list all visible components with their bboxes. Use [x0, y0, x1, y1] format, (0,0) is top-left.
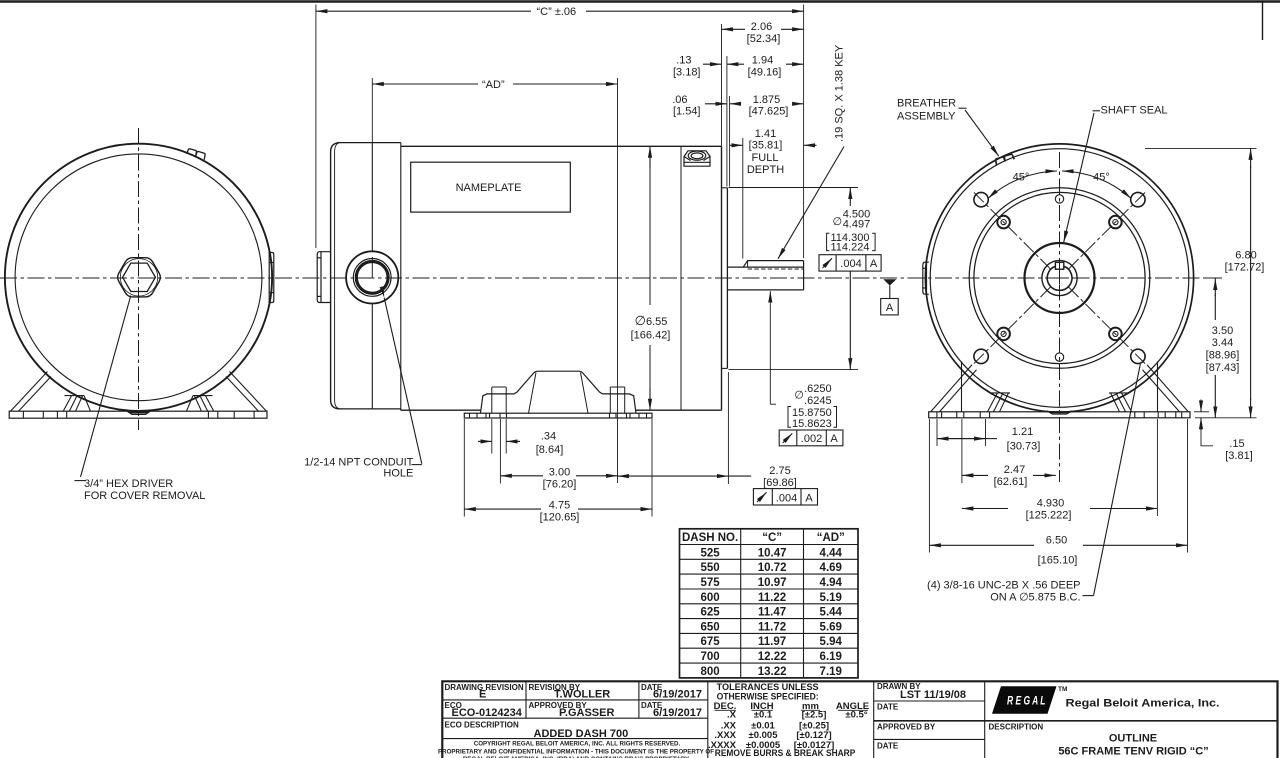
- svg-text:∅: ∅: [833, 216, 843, 228]
- feature control frame .004 A: [819, 255, 881, 271]
- front view: motor front outline: [5, 144, 272, 411]
- svg-text:11.97: 11.97: [758, 636, 786, 648]
- svg-text:SHAFT SEAL: SHAFT SEAL: [1101, 105, 1168, 117]
- svg-text:(4) 3/8-16 UNC-2B X .56 DEEP: (4) 3/8-16 UNC-2B X .56 DEEP: [927, 580, 1080, 592]
- rear view vertical centerline: [1059, 152, 1061, 482]
- side view body end / C-face: [721, 146, 723, 410]
- dimension 1.21 [30.73]: [936, 419, 938, 446]
- rear view through-bolt holes: [997, 216, 1010, 229]
- svg-text:[35.81]: [35.81]: [749, 140, 783, 152]
- svg-text:5.19: 5.19: [820, 592, 842, 604]
- rear view C-face pilot circle: [974, 192, 1145, 363]
- side view cap top/bottom edges: [338, 142, 401, 144]
- svg-text:6.50: 6.50: [1046, 534, 1067, 546]
- front view right foot: [187, 372, 267, 412]
- svg-text:12.22: 12.22: [758, 651, 787, 663]
- svg-text:45°: 45°: [1093, 172, 1110, 184]
- rear view bottom center pad: [1047, 411, 1072, 414]
- svg-text:[166.42]: [166.42]: [631, 330, 671, 342]
- side view 1/2-14 NPT conduit hole: [346, 251, 398, 303]
- svg-text:E: E: [479, 689, 486, 701]
- svg-text:FOR COVER REMOVAL: FOR COVER REMOVAL: [84, 490, 205, 502]
- horizontal centerline through all views: [0, 277, 1205, 279]
- dimension dia 6.55 [166.42]: [649, 166, 651, 305]
- side view nameplate: [411, 162, 571, 212]
- svg-text:45°: 45°: [1013, 172, 1030, 184]
- svg-text:.6245: .6245: [804, 395, 832, 407]
- svg-text:3/4” HEX DRIVER: 3/4” HEX DRIVER: [84, 478, 173, 490]
- rear view 3/8-16 tapped holes: [974, 192, 988, 206]
- dimension 4.930 [125.222]: [1156, 419, 1158, 516]
- svg-text:A: A: [830, 433, 838, 445]
- datum A flag: [883, 279, 896, 285]
- svg-text:[125.222]: [125.222]: [1026, 509, 1072, 521]
- svg-text:DASH NO.: DASH NO.: [682, 532, 738, 544]
- svg-text:10.47: 10.47: [758, 547, 787, 559]
- rear view base plate: [929, 412, 1190, 418]
- svg-text:3.00: 3.00: [549, 466, 570, 478]
- svg-text:1.94: 1.94: [752, 55, 773, 67]
- svg-text:650: 650: [701, 621, 720, 633]
- dimension 6.80 [172.72]: [1145, 147, 1257, 149]
- leader: shaft seal: [1093, 110, 1101, 112]
- svg-text:[52.34]: [52.34]: [747, 33, 781, 45]
- svg-text:1.21: 1.21: [1012, 426, 1033, 438]
- svg-text:A: A: [805, 492, 813, 504]
- svg-text:REMOVE BURRS & BREAK SHARP: REMOVE BURRS & BREAK SHARP: [715, 748, 856, 758]
- leader: 3/4 hex driver: [81, 296, 131, 478]
- front view base plate: [9, 411, 267, 418]
- front view left foot: [11, 372, 91, 412]
- svg-text:[62.61]: [62.61]: [994, 476, 1028, 488]
- svg-text:TM: TM: [1058, 686, 1067, 693]
- svg-text:5.44: 5.44: [820, 607, 843, 619]
- svg-text:3.44: 3.44: [1212, 337, 1233, 349]
- side view rear seam line: [680, 146, 682, 410]
- dash number table: [680, 529, 859, 678]
- svg-text:6/19/2017: 6/19/2017: [653, 707, 702, 719]
- svg-text:ADDED DASH 700: ADDED DASH 700: [534, 728, 629, 740]
- svg-text:ECO-0124234: ECO-0124234: [452, 707, 523, 719]
- svg-text:2.06: 2.06: [751, 21, 772, 33]
- svg-text:700: 700: [701, 651, 720, 663]
- rear view left foot: [931, 362, 1010, 412]
- svg-text:[3.81]: [3.81]: [1225, 450, 1253, 462]
- svg-text:550: 550: [701, 562, 720, 574]
- sheet top border: [0, 0, 1280, 3]
- svg-text:6.80: 6.80: [1235, 249, 1256, 261]
- dimension 2.47 [62.61]: [961, 419, 963, 483]
- rear view 45-degree centerlines: [973, 191, 1051, 269]
- dimension 1.94 [49.16]: [727, 63, 744, 65]
- dimension 2.75 [69.86]: [727, 372, 729, 484]
- front view bottom center pad: [127, 411, 152, 415]
- svg-text:“C” ±.06: “C” ±.06: [537, 6, 577, 18]
- svg-text:DATE: DATE: [877, 703, 899, 712]
- sheet right border stub: [1262, 2, 1264, 40]
- svg-text:∅: ∅: [794, 390, 804, 402]
- svg-text:.19 SQ. X 1.38 KEY: .19 SQ. X 1.38 KEY: [834, 44, 846, 142]
- svg-text:1.875: 1.875: [753, 94, 781, 106]
- svg-text:COPYRIGHT REGAL BELOIT AMERICA: COPYRIGHT REGAL BELOIT AMERICA, INC. ALL…: [474, 741, 681, 748]
- svg-text:DATE: DATE: [877, 742, 899, 751]
- dimension "AD": [372, 83, 478, 85]
- svg-text:[88.96]: [88.96]: [1206, 350, 1240, 362]
- svg-text:600: 600: [701, 592, 720, 604]
- svg-text:HOLE: HOLE: [383, 468, 413, 480]
- side view cast foot profile: [481, 371, 637, 413]
- svg-text:11.72: 11.72: [758, 621, 786, 633]
- svg-text:6/19/2017: 6/19/2017: [653, 689, 702, 701]
- svg-text:11.47: 11.47: [758, 607, 786, 619]
- svg-text:[120.65]: [120.65]: [540, 511, 580, 523]
- svg-text:15.8750: 15.8750: [792, 407, 832, 419]
- svg-text:DESCRIPTION: DESCRIPTION: [989, 723, 1044, 732]
- svg-text:11.22: 11.22: [758, 592, 786, 604]
- svg-text:15.8623: 15.8623: [792, 418, 832, 430]
- rear view center mark: [1054, 277, 1066, 279]
- rear view breather tab on rim: [996, 154, 1015, 165]
- svg-text:NAMEPLATE: NAMEPLATE: [456, 182, 522, 194]
- front view center hex (3/4" hex driver): [118, 258, 161, 297]
- svg-text:.13: .13: [676, 55, 691, 67]
- svg-text:[49.16]: [49.16]: [748, 66, 782, 78]
- svg-text:OUTLINE: OUTLINE: [1109, 733, 1157, 745]
- svg-text:4.930: 4.930: [1037, 497, 1065, 509]
- svg-text:APPROVED BY: APPROVED BY: [877, 723, 936, 732]
- svg-text:5.94: 5.94: [820, 636, 843, 648]
- svg-text:114.224: 114.224: [831, 242, 870, 254]
- svg-text:675: 675: [701, 636, 721, 648]
- side view cap-body joint: [400, 146, 402, 410]
- front view vertical centerline: [138, 128, 140, 430]
- svg-text:LST 11/19/08: LST 11/19/08: [900, 689, 966, 701]
- rear view left edge tab: [923, 262, 929, 294]
- rear view: outer shell: [925, 144, 1193, 412]
- svg-text:10.97: 10.97: [758, 577, 787, 589]
- dimension 2.06 [52.34]: [722, 28, 746, 30]
- svg-text:.6250: .6250: [804, 383, 832, 395]
- svg-text:A: A: [886, 302, 894, 314]
- svg-text:[30.73]: [30.73]: [1007, 440, 1041, 452]
- svg-text:.004: .004: [840, 258, 861, 270]
- svg-text:[47.625]: [47.625]: [749, 106, 789, 118]
- svg-text:1/2-14 NPT CONDUIT: 1/2-14 NPT CONDUIT: [304, 456, 413, 468]
- rear view right foot: [1109, 362, 1188, 412]
- svg-text:2.75: 2.75: [769, 465, 790, 477]
- svg-text:5.69: 5.69: [820, 621, 842, 633]
- side view shaft key: [743, 261, 803, 268]
- dimension 3.50 3.44 [88.96] [87.43]: [1205, 277, 1222, 279]
- svg-text:800: 800: [701, 666, 720, 678]
- svg-text:6.19: 6.19: [820, 651, 842, 663]
- svg-text:[69.86]: [69.86]: [763, 477, 797, 489]
- Regal logo: [992, 686, 1057, 714]
- svg-text:4.497: 4.497: [843, 219, 871, 231]
- dimension 4.75 [120.65]: [463, 419, 465, 517]
- svg-text:[172.72]: [172.72]: [1225, 261, 1265, 273]
- svg-text:“C”: “C”: [762, 532, 782, 544]
- svg-text:4.75: 4.75: [549, 499, 570, 511]
- dimension 6.50 [165.10]: [928, 419, 930, 553]
- svg-text:[±2.5]: [±2.5]: [802, 709, 827, 720]
- feature control frame .004 A (foot): [753, 489, 817, 505]
- svg-text:525: 525: [701, 547, 721, 559]
- svg-text:±0.5°: ±0.5°: [845, 709, 867, 720]
- leader: breather assembly: [959, 107, 967, 109]
- side view hex bolt on top: [684, 151, 710, 166]
- side view pilot boss: [726, 188, 728, 369]
- svg-text:[3.18]: [3.18]: [673, 66, 701, 78]
- svg-text:.15: .15: [1229, 438, 1244, 450]
- svg-text:575: 575: [701, 577, 721, 589]
- svg-text:[1.54]: [1.54]: [673, 106, 701, 118]
- front view right edge tab (clip): [269, 253, 274, 303]
- svg-text:7.19: 7.19: [820, 666, 842, 678]
- svg-text:T.WOLLER: T.WOLLER: [554, 689, 610, 701]
- dimension "C" +-.06: [316, 10, 531, 12]
- leader: conduit hole callout: [384, 298, 422, 464]
- side view left edge tab (clip): [317, 252, 330, 303]
- svg-text:625: 625: [701, 607, 721, 619]
- dimension 1.41 [35.81] FULL DEPTH: [730, 144, 743, 146]
- svg-text:BREATHER: BREATHER: [897, 98, 956, 110]
- side view cap seam line: [371, 143, 373, 252]
- svg-text:“AD”: “AD”: [817, 532, 845, 544]
- svg-text:10.72: 10.72: [758, 562, 787, 574]
- side view base plate: [464, 413, 652, 418]
- front view top rim tab (breather boss): [187, 149, 206, 160]
- svg-text:R E G A L: R E G A L: [1007, 696, 1046, 708]
- svg-text:4.69: 4.69: [820, 562, 842, 574]
- svg-text:4.44: 4.44: [820, 547, 843, 559]
- dimension .34 [8.64]: [491, 419, 493, 454]
- svg-text:3.50: 3.50: [1212, 325, 1233, 337]
- svg-text:[8.64]: [8.64]: [536, 444, 564, 456]
- svg-text:4.94: 4.94: [820, 577, 843, 589]
- feature control frame .002 A: [779, 430, 843, 446]
- rear view small holes on vertical axis: [1055, 195, 1063, 203]
- rear view shaft with keyway: [1047, 266, 1072, 290]
- svg-text:A: A: [870, 258, 878, 270]
- svg-text:FULL: FULL: [752, 152, 779, 164]
- svg-text:ECO DESCRIPTION: ECO DESCRIPTION: [445, 721, 519, 730]
- dimension .15 [3.81]: [1194, 411, 1209, 413]
- svg-text:[87.43]: [87.43]: [1206, 362, 1240, 374]
- shaft dia .6250 callout: [769, 291, 771, 404]
- svg-text:1.41: 1.41: [755, 128, 776, 140]
- svg-text:Regal Beloit America, Inc.: Regal Beloit America, Inc.: [1066, 698, 1220, 710]
- svg-text:±0.1: ±0.1: [754, 709, 773, 720]
- title block frame: [442, 681, 1277, 758]
- side view: end cap outline: [331, 143, 339, 409]
- dimension 3.00 [76.20]: [499, 419, 501, 484]
- svg-text:ASSEMBLY: ASSEMBLY: [897, 111, 956, 123]
- svg-text:.34: .34: [541, 431, 556, 443]
- side view body top edge: [401, 145, 722, 147]
- svg-text:∅6.55: ∅6.55: [635, 313, 668, 328]
- svg-text:.004: .004: [776, 492, 797, 504]
- svg-text:.06: .06: [672, 94, 687, 106]
- svg-text:56C FRAME TENV RIGID “C”: 56C FRAME TENV RIGID “C”: [1058, 746, 1208, 758]
- side view shaft: [727, 266, 803, 268]
- svg-text:PROPRIETARY AND CONFIDENTIAL I: PROPRIETARY AND CONFIDENTIAL INFORMATION…: [438, 748, 714, 755]
- dimension 1.875 [47.625]: [730, 103, 741, 105]
- dia 4.500 dimension: [729, 187, 858, 189]
- svg-text:.X: .X: [727, 709, 737, 720]
- side view body bottom edge: [401, 409, 481, 411]
- svg-text:13.22: 13.22: [758, 666, 787, 678]
- 45 degree angular dimensions: [988, 179, 1020, 199]
- svg-text:P.GASSER: P.GASSER: [559, 707, 614, 719]
- rear view seal boss: [1025, 243, 1095, 313]
- extension lines top: [315, 5, 317, 249]
- svg-text:DEPTH: DEPTH: [747, 164, 784, 176]
- svg-text:[76.20]: [76.20]: [543, 479, 577, 491]
- svg-text:[165.10]: [165.10]: [1038, 554, 1078, 566]
- svg-text:“AD”: “AD”: [482, 79, 505, 91]
- svg-text:2.47: 2.47: [1004, 464, 1025, 476]
- svg-text:ON A ∅5.875 B.C.: ON A ∅5.875 B.C.: [990, 591, 1080, 603]
- svg-text:.002: .002: [801, 433, 822, 445]
